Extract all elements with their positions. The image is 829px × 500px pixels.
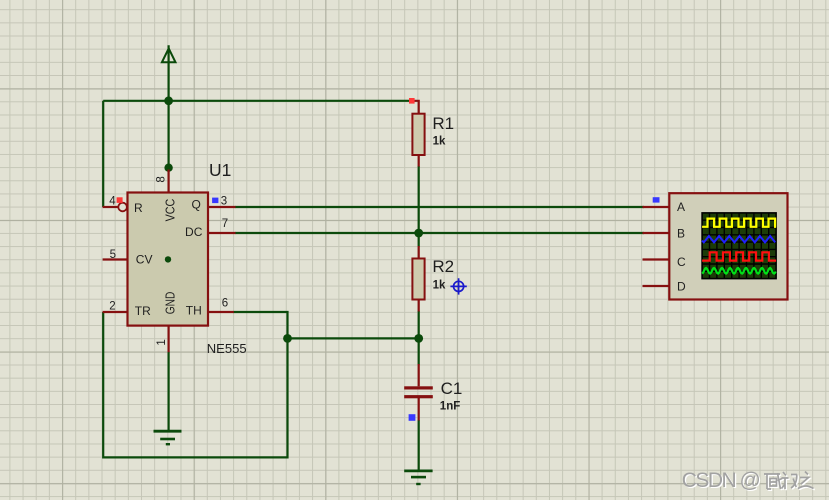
chip pin labels — [134, 197, 203, 318]
resistor R1 body — [412, 114, 424, 155]
pin 6 stub — [208, 311, 234, 313]
node: junction at pin 8 — [164, 164, 172, 172]
wire: GND pin1 to ground — [168, 352, 170, 431]
ground under C1 — [404, 471, 432, 484]
trace D green sine — [702, 268, 776, 274]
pin 5 stub — [103, 258, 128, 260]
scope pin C stub — [643, 258, 670, 260]
svg-text:VCC: VCC — [163, 199, 178, 222]
wire: DC junction to R2 top — [418, 233, 420, 247]
svg-text:CSDN @: CSDN @ — [682, 469, 761, 492]
pin 7 stub — [208, 232, 236, 234]
op IC U1 NE555 body — [128, 193, 209, 326]
wire: TR pin2 bottom loop — [103, 312, 287, 457]
trace B blue wave — [702, 236, 775, 242]
resistor R2 top pin — [418, 246, 420, 259]
marker blue pin3 — [212, 198, 218, 204]
resistor R2 bottom pin — [418, 300, 420, 312]
svg-text:6: 6 — [222, 298, 228, 310]
wire: junction to C1 top — [418, 338, 420, 364]
svg-text:TH: TH — [186, 304, 202, 318]
scope channel labels — [677, 200, 686, 293]
wire: DC pin7 to scope B — [235, 232, 644, 234]
svg-text:A: A — [677, 200, 685, 214]
resistor R1 top pin corner — [412, 101, 419, 114]
svg-text:D: D — [677, 279, 686, 293]
svg-text:TR: TR — [135, 304, 151, 318]
pin 2 stub — [103, 311, 128, 313]
svg-text:4: 4 — [109, 195, 116, 207]
wire: R1 bottom to DC line — [418, 166, 420, 233]
svg-text:1k: 1k — [433, 136, 446, 148]
scope pin D stub — [643, 285, 670, 287]
crosshair cursor — [450, 278, 466, 294]
svg-text:1: 1 — [156, 339, 168, 345]
svg-text:CV: CV — [136, 252, 153, 266]
marker red R1 — [409, 98, 415, 104]
node: junction TH/TR/mid — [283, 334, 292, 343]
oscilloscope body — [669, 193, 787, 299]
power symbol VCC arrow — [162, 48, 176, 62]
pin 1 stub — [168, 326, 170, 353]
svg-text:8: 8 — [156, 176, 168, 182]
svg-text:C1: C1 — [441, 379, 463, 398]
resistor R1 bottom pin — [418, 155, 420, 167]
scope pin A stub — [643, 206, 670, 208]
svg-text:2: 2 — [109, 301, 115, 313]
wire: mid horizontal to C1 top — [288, 337, 419, 339]
svg-text:Q: Q — [191, 197, 200, 211]
capacitor C1 plates — [404, 386, 433, 389]
pin 4 stub — [103, 206, 119, 208]
watermark — [682, 469, 815, 493]
node: junction DC/R1/R2 — [414, 229, 423, 238]
marker red pin4 — [117, 197, 123, 203]
capacitor C1 bottom pin — [418, 398, 420, 421]
wire: Q pin3 to scope A — [235, 206, 644, 208]
wire: R2 bottom to mid junction — [418, 311, 420, 338]
ground under chip — [154, 431, 182, 444]
svg-text:U1: U1 — [209, 160, 231, 180]
svg-text:C: C — [677, 255, 686, 269]
wire: TH pin6 right and down — [234, 312, 288, 338]
wire: top horizontal VCC rail y=100.8 — [103, 100, 412, 102]
svg-text:R1: R1 — [432, 114, 454, 133]
svg-text:5: 5 — [110, 249, 116, 261]
trace A yellow square wave — [702, 219, 776, 227]
resistor R2 body — [412, 259, 424, 300]
wire: left vertical from rail to pin R — [102, 101, 104, 207]
svg-text:B: B — [677, 227, 685, 241]
svg-text:3: 3 — [221, 195, 227, 207]
pin 8 stub — [168, 170, 170, 193]
svg-text:1k: 1k — [433, 280, 446, 292]
scope screen — [702, 213, 776, 279]
chip origin dot — [165, 256, 171, 262]
trace C red square wave — [702, 252, 776, 260]
marker blue scope A — [653, 197, 660, 202]
svg-text:DC: DC — [185, 225, 203, 239]
pin 3 stub — [208, 206, 236, 208]
scope pin B stub — [643, 232, 670, 234]
svg-text:7: 7 — [222, 218, 228, 230]
chip pin numbers — [109, 176, 228, 345]
svg-text:NE555: NE555 — [207, 341, 247, 356]
node: junction rail/stem — [164, 96, 173, 105]
wire: power arrow stem down to pin 8 — [168, 45, 170, 168]
svg-text:R: R — [134, 201, 143, 215]
svg-text:1nF: 1nF — [440, 400, 460, 412]
marker blue C1 — [409, 414, 416, 421]
svg-text:R2: R2 — [432, 257, 454, 276]
node: junction mid/C1 — [414, 334, 423, 343]
wire: C1 bottom to ground — [418, 420, 420, 470]
pin 4 inversion bubble — [118, 203, 127, 212]
capacitor C1 top pin — [418, 364, 420, 386]
svg-text:GND: GND — [163, 292, 178, 315]
